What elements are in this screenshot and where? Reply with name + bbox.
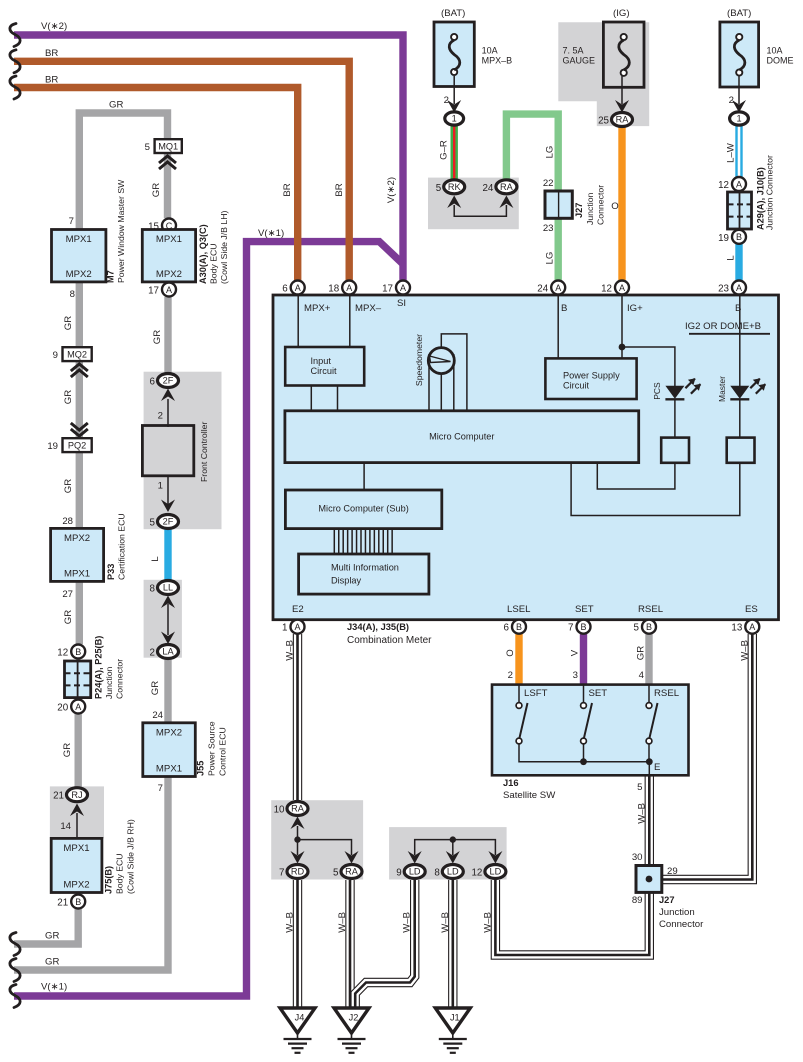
arrows LL to LA: [161, 596, 175, 609]
panel behind LD connector: [389, 827, 507, 879]
svg-text:LA: LA: [162, 647, 174, 657]
ground J2: [334, 1008, 369, 1033]
svg-text:RA: RA: [500, 182, 514, 192]
svg-text:1: 1: [158, 481, 163, 492]
wire O fuse GAUGE to meter IG+: [618, 126, 625, 281]
wire W-B J16 E to J27: [645, 772, 654, 866]
svg-text:2: 2: [729, 95, 734, 106]
svg-text:LG: LG: [545, 252, 556, 265]
svg-text:Connector: Connector: [659, 919, 704, 930]
connector 10(RA): [287, 802, 308, 816]
svg-text:5: 5: [150, 518, 156, 529]
svg-text:LD: LD: [409, 867, 421, 877]
wire W-B meter E2 to RA: [293, 634, 302, 800]
connector 5(RA): [341, 865, 362, 879]
wire Master LED to resistor: [739, 399, 741, 438]
arrow into RA 5: [345, 851, 359, 864]
micro computer sub box: [285, 490, 441, 529]
connector 19 PQ2: [63, 438, 92, 452]
terminal 13(A) ES: [745, 620, 759, 634]
connector 25(RA): [612, 113, 633, 127]
svg-text:19: 19: [718, 233, 729, 244]
svg-text:29: 29: [667, 866, 678, 877]
svg-text:5: 5: [637, 782, 642, 793]
svg-text:LSEL: LSEL: [507, 604, 531, 615]
svg-text:E: E: [654, 762, 660, 773]
wire break BR lower: [10, 76, 20, 99]
wire GR J55 to left edge: [14, 774, 168, 970]
terminal 17(A) SI: [396, 281, 410, 295]
wire GR MQ2 to PQ2: [76, 360, 83, 440]
svg-text:MQ1: MQ1: [158, 142, 178, 152]
arrow into 2F top: [161, 389, 175, 402]
svg-text:L–W: L–W: [726, 142, 737, 163]
svg-text:A: A: [294, 622, 300, 632]
wire junction to PCS LED: [622, 347, 675, 386]
svg-text:Power Window Master SW: Power Window Master SW: [116, 179, 126, 283]
connector 21(B): [71, 895, 85, 909]
svg-text:J55: J55: [196, 761, 206, 776]
wire GR M7 top loop: [79, 113, 167, 232]
svg-text:9: 9: [53, 350, 58, 361]
svg-text:5: 5: [436, 183, 442, 194]
svg-text:J27: J27: [659, 895, 675, 905]
svg-text:23: 23: [718, 284, 729, 295]
arrow into LD 12: [488, 851, 502, 864]
svg-text:3: 3: [573, 670, 578, 681]
svg-text:5: 5: [145, 142, 150, 153]
arrow into fuse output 1 dome: [732, 100, 746, 113]
wire V(*2) purple: [14, 35, 403, 281]
svg-text:GR: GR: [45, 957, 59, 968]
svg-text:1: 1: [736, 114, 741, 124]
wire LG RA loop to meter B: [506, 114, 558, 281]
LD bus wire: [415, 840, 496, 855]
svg-text:Master: Master: [717, 376, 727, 402]
svg-text:Display: Display: [331, 576, 362, 586]
wire W-B meter ES to J27: [663, 634, 752, 880]
terminal 6(B) LSEL: [512, 620, 526, 634]
svg-text:W–B: W–B: [285, 912, 296, 933]
svg-text:W–B: W–B: [402, 912, 413, 933]
wire GR A30 to 2F: [164, 297, 171, 373]
svg-text:21: 21: [53, 791, 64, 802]
arrow into RA 10: [291, 817, 305, 830]
svg-text:V(∗2): V(∗2): [386, 177, 397, 203]
svg-text:GR: GR: [152, 330, 163, 344]
wire O meter LSEL to J16: [515, 634, 522, 688]
wire L 2F to LL blue: [164, 529, 171, 582]
svg-text:Micro Computer: Micro Computer: [429, 432, 494, 442]
wire GR meter RSEL to J16: [645, 634, 652, 688]
wire GR PQ2 to P33: [76, 450, 83, 530]
wire PCS resistor to micro computer: [597, 463, 675, 489]
terminal 5(B) RSEL: [642, 620, 656, 634]
svg-text:W–B: W–B: [739, 640, 750, 661]
svg-text:L: L: [150, 556, 161, 562]
svg-text:RJ: RJ: [71, 790, 82, 800]
front controller box: [142, 426, 193, 476]
svg-text:12: 12: [471, 868, 482, 879]
svg-text:MPX–B: MPX–B: [482, 56, 513, 66]
wire GR MQ1 to A30: [164, 152, 171, 218]
svg-text:Junction Connector: Junction Connector: [765, 155, 775, 230]
svg-text:Speedometer: Speedometer: [414, 334, 424, 386]
body ECU J75(B): [51, 838, 102, 892]
svg-text:4: 4: [639, 670, 645, 681]
svg-text:B: B: [646, 622, 652, 632]
svg-text:GR: GR: [150, 681, 161, 695]
svg-text:V(∗2): V(∗2): [41, 21, 67, 32]
panel behind Front Controller: [144, 372, 222, 530]
svg-text:MPX–: MPX–: [355, 303, 382, 314]
svg-text:P33: P33: [106, 564, 116, 580]
wire G-R fuse MPX-B to RK: [451, 124, 458, 180]
panel behind GAUGE fuse: [558, 22, 649, 126]
LED PCS: [665, 386, 684, 399]
svg-text:2: 2: [150, 648, 155, 659]
connector 20(A): [71, 700, 85, 714]
wire break V(*1): [10, 985, 20, 1008]
svg-text:23: 23: [543, 223, 554, 234]
connector 12(B): [71, 645, 85, 659]
wire GR M7 to MQ2: [76, 280, 83, 349]
terminal 12(A) IG+: [615, 281, 629, 295]
svg-text:GR: GR: [63, 479, 74, 493]
wire L-W fuse DOME to A29: [735, 125, 742, 178]
svg-text:J75(B): J75(B): [104, 866, 114, 894]
svg-text:A: A: [295, 283, 301, 293]
svg-text:22: 22: [543, 178, 554, 189]
svg-text:BR: BR: [45, 48, 58, 59]
svg-text:O: O: [611, 201, 618, 212]
svg-text:6: 6: [504, 623, 510, 634]
wire meter IG+ down with junction: [621, 296, 623, 359]
svg-text:Circuit: Circuit: [311, 366, 337, 376]
svg-text:J4: J4: [295, 1013, 305, 1023]
junction connector J27 bottom: [636, 866, 662, 893]
svg-text:B: B: [75, 897, 81, 907]
svg-text:7. 5A: 7. 5A: [563, 46, 584, 56]
svg-text:Connector: Connector: [596, 185, 606, 225]
svg-text:A: A: [749, 622, 755, 632]
svg-text:27: 27: [62, 589, 73, 600]
svg-text:14: 14: [60, 821, 71, 832]
wires input circuit to micro computer: [310, 386, 312, 413]
panel behind RK/RA connector: [428, 178, 519, 230]
svg-text:17: 17: [148, 286, 159, 297]
svg-text:LSFT: LSFT: [524, 688, 548, 699]
svg-text:MPX2: MPX2: [63, 879, 89, 890]
svg-text:GR: GR: [635, 646, 646, 660]
svg-text:PCS: PCS: [652, 382, 662, 400]
svg-text:MQ2: MQ2: [67, 350, 87, 360]
svg-text:MPX1: MPX1: [64, 568, 90, 579]
svg-text:MPX2: MPX2: [66, 269, 92, 280]
svg-text:BR: BR: [282, 183, 293, 196]
arrows into RK and RA: [447, 196, 461, 209]
svg-text:RD: RD: [291, 867, 305, 877]
svg-text:30: 30: [632, 852, 643, 863]
svg-text:GR: GR: [45, 931, 59, 942]
svg-text:RA: RA: [345, 867, 359, 877]
svg-text:J27: J27: [574, 203, 584, 218]
connector 6(2F): [158, 374, 179, 388]
svg-text:W–B: W–B: [482, 912, 493, 933]
wire V meter SET to J16: [580, 634, 587, 688]
junction connector J27 top: [545, 191, 572, 218]
svg-text:18: 18: [328, 284, 339, 295]
svg-text:J1: J1: [450, 1013, 460, 1023]
svg-text:GR: GR: [109, 100, 123, 111]
svg-text:G–R: G–R: [439, 140, 450, 160]
chevron MQ1: [159, 156, 176, 163]
svg-text:GR: GR: [63, 390, 74, 404]
svg-text:DOME: DOME: [767, 56, 794, 66]
svg-text:9: 9: [396, 868, 401, 879]
svg-text:LG: LG: [545, 146, 556, 159]
svg-text:7: 7: [69, 216, 74, 227]
svg-text:25: 25: [598, 116, 609, 127]
power supply circuit box: [545, 358, 636, 399]
satellite switch J16: [492, 685, 689, 776]
wire GR J75 to left edge: [14, 909, 78, 944]
ground J1: [435, 1008, 470, 1033]
svg-text:Circuit: Circuit: [563, 381, 589, 391]
svg-text:(BAT): (BAT): [441, 8, 465, 19]
svg-text:RSEL: RSEL: [654, 688, 680, 699]
connector 1 below MPX-B fuse: [445, 112, 464, 125]
svg-text:Body ECU: Body ECU: [115, 853, 125, 894]
svg-text:5: 5: [634, 623, 640, 634]
connector 21(RJ): [67, 788, 88, 802]
link wire RK to RA: [454, 205, 506, 216]
svg-text:Input: Input: [311, 356, 332, 366]
svg-text:BR: BR: [45, 75, 58, 86]
connector 9(LD): [404, 865, 425, 879]
svg-text:2F: 2F: [163, 517, 174, 527]
chevron PQ2: [71, 423, 88, 430]
svg-text:13: 13: [731, 623, 742, 634]
svg-text:RK: RK: [448, 182, 462, 192]
svg-text:LD: LD: [490, 867, 502, 877]
connector 7(RD): [287, 865, 308, 879]
svg-text:MPX+: MPX+: [304, 303, 331, 314]
connector 24(RA): [496, 180, 517, 194]
svg-text:RA: RA: [616, 115, 630, 125]
svg-text:MPX1: MPX1: [156, 763, 182, 774]
ground J4: [280, 1008, 315, 1033]
wire Master resistor to micro computer: [571, 463, 740, 516]
speedometer symbol: [428, 354, 430, 412]
arrow into fuse output 1: [447, 100, 461, 113]
svg-text:V: V: [570, 649, 581, 656]
connector 15(C): [162, 219, 176, 233]
svg-text:(Cowl Side J/B RH): (Cowl Side J/B RH): [126, 819, 136, 894]
resistor PCS: [661, 438, 689, 463]
wire BR upper: [14, 61, 349, 281]
svg-text:GR: GR: [151, 183, 162, 197]
svg-text:GR: GR: [62, 743, 73, 757]
svg-text:M7: M7: [106, 270, 116, 283]
hatch bus sub to display: [333, 529, 335, 554]
svg-text:E2: E2: [292, 604, 304, 615]
wire meter B to power supply circuit: [557, 296, 559, 359]
wire V(*1) purple: [14, 242, 403, 996]
svg-text:PQ2: PQ2: [68, 441, 86, 451]
connector 9 MQ2: [63, 347, 92, 361]
svg-text:A: A: [736, 283, 742, 293]
svg-text:24: 24: [152, 710, 163, 721]
svg-text:Connector: Connector: [115, 659, 125, 699]
svg-text:A: A: [736, 179, 742, 189]
svg-text:V(∗1): V(∗1): [258, 228, 284, 239]
multi information display box: [299, 554, 429, 594]
wire break V(*2): [10, 24, 20, 47]
svg-text:20: 20: [57, 703, 68, 714]
svg-text:RA: RA: [291, 804, 305, 814]
svg-text:Certification ECU: Certification ECU: [117, 513, 127, 580]
svg-text:Combination Meter: Combination Meter: [347, 635, 432, 646]
meter internal wire MPX- to input circuit: [349, 296, 351, 348]
svg-text:Multi Information: Multi Information: [331, 563, 399, 573]
svg-text:MPX2: MPX2: [156, 728, 182, 739]
wire BR lower: [14, 88, 298, 282]
wire W-B LD 8 to ground J1: [448, 880, 457, 1009]
chevron MQ2: [71, 364, 88, 371]
svg-text:10A: 10A: [482, 46, 498, 56]
connector 12(A) A29: [732, 177, 746, 191]
svg-text:B: B: [736, 232, 742, 242]
svg-text:SET: SET: [589, 688, 608, 699]
wire GR P24 to RJ: [74, 711, 81, 788]
svg-text:L: L: [726, 255, 737, 261]
wire W-B LD 9 to ground J2: [355, 880, 415, 1009]
arrow into 2F bottom: [167, 476, 169, 505]
svg-text:12: 12: [718, 180, 729, 191]
svg-text:GAUGE: GAUGE: [563, 56, 596, 66]
connector 12(LD): [485, 865, 506, 879]
svg-text:8: 8: [434, 868, 440, 879]
svg-text:W–B: W–B: [440, 912, 451, 933]
svg-text:Power Source: Power Source: [207, 721, 217, 776]
svg-text:J34(A), J35(B): J34(A), J35(B): [347, 622, 409, 632]
svg-text:Satellite SW: Satellite SW: [503, 790, 556, 801]
svg-text:1: 1: [452, 114, 457, 124]
svg-text:MPX2: MPX2: [64, 533, 90, 544]
svg-text:28: 28: [62, 516, 73, 527]
svg-text:A: A: [75, 702, 81, 712]
svg-text:Junction: Junction: [104, 666, 114, 699]
svg-text:17: 17: [382, 284, 393, 295]
svg-text:10: 10: [274, 805, 285, 816]
svg-text:A: A: [619, 283, 625, 293]
svg-text:B: B: [561, 303, 567, 314]
svg-text:GR: GR: [63, 316, 74, 330]
svg-text:10A: 10A: [767, 46, 783, 56]
svg-text:2: 2: [444, 95, 449, 106]
svg-text:A30(A), Q3(C): A30(A), Q3(C): [198, 224, 208, 284]
wire GR P33 to P24: [76, 580, 83, 644]
connector 2(LA): [158, 645, 179, 659]
svg-text:8: 8: [70, 289, 75, 300]
svg-text:Body ECU: Body ECU: [209, 243, 219, 284]
input circuit box: [285, 347, 364, 386]
svg-text:IG+: IG+: [627, 303, 643, 314]
connector 19(B) A29: [732, 230, 746, 244]
svg-text:MPX2: MPX2: [156, 269, 182, 280]
svg-text:BR: BR: [334, 183, 345, 196]
arrow into fuse output 25: [615, 100, 629, 113]
terminal 23(A) B: [732, 281, 746, 295]
svg-text:W–B: W–B: [337, 912, 348, 933]
terminal 1(A) E2: [291, 620, 305, 634]
svg-text:2: 2: [508, 670, 513, 681]
svg-text:19: 19: [47, 441, 58, 452]
wire W-B RD to ground J4: [293, 880, 302, 1009]
svg-text:RSEL: RSEL: [638, 604, 664, 615]
combination meter box J34(A) J35(B): [273, 295, 779, 620]
svg-text:V(∗1): V(∗1): [41, 982, 67, 993]
svg-text:Front Controller: Front Controller: [199, 422, 209, 482]
wire break BR upper: [10, 50, 20, 73]
connector 1 below DOME fuse: [730, 112, 749, 125]
power source control ECU J55: [143, 723, 196, 777]
svg-text:2F: 2F: [163, 376, 174, 386]
svg-text:7: 7: [279, 868, 284, 879]
svg-text:24: 24: [482, 183, 493, 194]
panel behind RJ connector: [50, 786, 104, 838]
wire GR LA to J55: [164, 659, 171, 725]
svg-text:SI: SI: [397, 298, 406, 309]
svg-text:A: A: [346, 283, 352, 293]
svg-text:B: B: [75, 647, 81, 657]
wire W-B RA to ground J2: [345, 880, 354, 1009]
connector 8(LL): [158, 581, 179, 595]
svg-text:J16: J16: [503, 778, 519, 788]
panel behind RA/RD/RA connector: [271, 800, 363, 879]
svg-text:(Cowl Side J/B LH): (Cowl Side J/B LH): [219, 211, 229, 284]
svg-text:MPX1: MPX1: [156, 234, 182, 245]
panel behind LL/LA connector: [144, 580, 182, 658]
wire L A29 to meter B right: [735, 243, 742, 281]
svg-text:Junction: Junction: [659, 907, 695, 918]
resistor Master: [727, 438, 755, 463]
svg-text:ES: ES: [745, 604, 758, 615]
J16 internal common wire: [519, 744, 649, 775]
wire PCS LED to resistor: [674, 399, 676, 438]
wire bus to Master LED: [739, 334, 741, 386]
svg-text:J2: J2: [349, 1013, 359, 1023]
svg-text:P24(A), P25(B): P24(A), P25(B): [94, 636, 104, 699]
svg-text:GR: GR: [63, 610, 74, 624]
junction connector A29(A) J10(B): [728, 192, 752, 229]
connector 5(2F): [158, 515, 179, 529]
svg-text:B: B: [580, 622, 586, 632]
svg-text:5: 5: [333, 868, 339, 879]
svg-text:7: 7: [568, 623, 573, 634]
arrow into LD 8: [446, 851, 460, 864]
svg-text:LD: LD: [447, 867, 459, 877]
svg-text:MPX1: MPX1: [66, 234, 92, 245]
svg-text:SET: SET: [575, 604, 594, 615]
svg-text:12: 12: [601, 284, 612, 295]
arrow into RJ: [70, 804, 84, 817]
svg-text:A: A: [400, 283, 406, 293]
svg-text:1: 1: [282, 623, 287, 634]
wire W-B LD 12 to J27: [495, 880, 649, 955]
svg-text:W–B: W–B: [636, 803, 647, 824]
